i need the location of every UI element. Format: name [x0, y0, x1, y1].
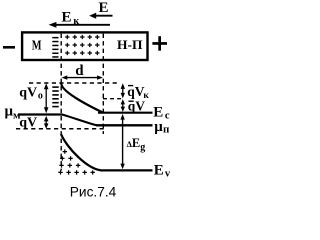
svg-text:Рис.7.4: Рис.7.4 [70, 185, 117, 200]
svg-text:о: о [38, 90, 43, 101]
svg-text:М: М [32, 37, 42, 52]
svg-text:Н-П: Н-П [117, 37, 143, 52]
svg-text:E: E [132, 136, 140, 150]
svg-text:μ: μ [154, 119, 163, 135]
svg-text:qV: qV [128, 98, 146, 113]
svg-text:E: E [154, 163, 164, 179]
svg-text:qV: qV [127, 84, 145, 99]
svg-text:v: v [165, 168, 171, 179]
svg-text:d: d [75, 63, 84, 79]
svg-text:с: с [165, 110, 170, 121]
svg-text:qV: qV [19, 86, 37, 101]
svg-text:qV: qV [19, 116, 37, 131]
svg-text:к: к [73, 16, 79, 27]
svg-text:g: g [140, 142, 145, 153]
svg-text:E: E [62, 9, 72, 25]
svg-text:п: п [163, 123, 170, 135]
svg-text:E: E [99, 0, 109, 16]
